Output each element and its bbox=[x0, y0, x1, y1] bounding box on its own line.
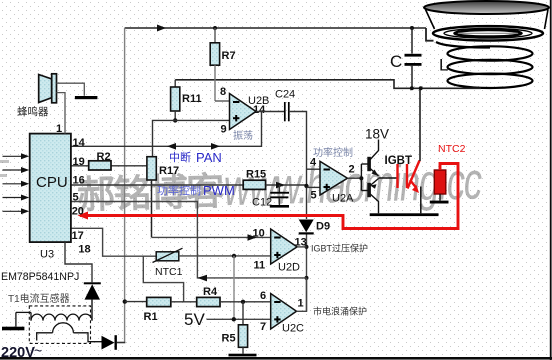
wire: main vertical below D9 bbox=[306, 235, 308, 312]
wire: R1 to R4 bbox=[171, 301, 197, 303]
resistor R1 bbox=[147, 297, 171, 306]
resistor R17 bbox=[147, 157, 156, 238]
wire: pin16 to R15 bbox=[71, 184, 243, 186]
svg-text:2: 2 bbox=[349, 164, 355, 176]
svg-text:振荡: 振荡 bbox=[233, 129, 253, 142]
node: U2D output junction bbox=[305, 245, 309, 249]
svg-text:NTC2: NTC2 bbox=[438, 143, 466, 155]
wire: buzzer top to ground bbox=[57, 83, 85, 96]
inductor L coil loops bbox=[436, 42, 533, 88]
CPU pin number labels bbox=[56, 123, 91, 256]
capacitor C24 bbox=[285, 102, 289, 121]
wire: CPU pin18 down to diode bbox=[65, 242, 92, 282]
svg-text:T1电流互感器: T1电流互感器 bbox=[8, 292, 70, 305]
transistor driver pair (totem pole) bbox=[361, 140, 378, 214]
resistor R2 on pin19 wire bbox=[71, 161, 147, 170]
wire: U2A pin4 input bbox=[307, 168, 321, 170]
wire: CPU pin17 to NTC1 bbox=[71, 228, 156, 256]
arrow on top rail bbox=[157, 25, 166, 32]
arrow: PNP emitter bbox=[370, 184, 376, 189]
svg-text:蜂鸣器: 蜂鸣器 bbox=[17, 105, 49, 118]
bottom mains line bbox=[0, 357, 552, 360]
wire: top rail from left rail to coil bbox=[125, 28, 434, 41]
svg-text:EM78P5841NPJ: EM78P5841NPJ bbox=[1, 271, 79, 283]
wire: U2B plus input / R17 top bbox=[153, 120, 230, 157]
svg-text:5: 5 bbox=[73, 192, 79, 204]
resistor R5 bbox=[238, 302, 247, 354]
wire: CPU pin5 to node bbox=[71, 202, 307, 282]
op-amp U2D bbox=[271, 229, 297, 264]
ground bar buzzer bbox=[75, 96, 98, 99]
node: R5 junction bbox=[241, 300, 245, 304]
resistor R15 bbox=[243, 180, 265, 189]
node: pin5 line junction bbox=[305, 276, 309, 280]
wire: R4 to U2C pin6 bbox=[220, 301, 271, 303]
right border line bbox=[550, 0, 552, 360]
arrow: NPN emitter bbox=[372, 170, 379, 177]
svg-text:14: 14 bbox=[73, 137, 86, 149]
node: R15/vertical junction bbox=[304, 184, 308, 188]
svg-text:R2: R2 bbox=[97, 151, 111, 163]
capacitor C12 to ground bbox=[270, 185, 289, 208]
node: IGBT collector junction bbox=[419, 86, 423, 90]
svg-text:18V: 18V bbox=[365, 127, 389, 142]
svg-text:L: L bbox=[439, 56, 448, 75]
ground bar 220V left bbox=[2, 327, 24, 331]
wire: left vertical rail (supply) bbox=[117, 28, 125, 343]
wire: U2D output bbox=[297, 246, 306, 248]
ground bar under NTC2 bbox=[430, 201, 449, 204]
svg-text:市电浪涌保护: 市电浪涌保护 bbox=[313, 306, 367, 317]
ground bar under R5 bbox=[229, 354, 257, 357]
pot body (top ellipse with gradient) bbox=[424, 1, 549, 14]
wire: U2A output to driver bbox=[348, 177, 362, 179]
op-amp U2B bbox=[230, 94, 257, 130]
red wire: CPU pin20 path bbox=[80, 164, 458, 229]
wire: pin14 feedback line with arrows bbox=[71, 112, 262, 150]
diode D (pin18 rectifier) bbox=[84, 282, 101, 320]
svg-text:CPU: CPU bbox=[36, 174, 68, 191]
resistor R11 bbox=[171, 80, 180, 121]
svg-text:U3: U3 bbox=[40, 249, 54, 261]
arrow: red into pin20 bbox=[78, 212, 89, 220]
transformer secondary bbox=[37, 323, 102, 342]
svg-text:R15: R15 bbox=[246, 169, 266, 181]
svg-text:10: 10 bbox=[253, 228, 265, 240]
buzzer speaker bbox=[39, 74, 57, 103]
arrow on R15 wire bbox=[276, 182, 285, 189]
svg-text:14: 14 bbox=[253, 104, 266, 116]
wire: U2B output to C24 bbox=[256, 111, 285, 113]
node: 5V junction bbox=[232, 317, 236, 321]
svg-text:U2D: U2D bbox=[278, 262, 300, 274]
ground bar under driver and IGBT bbox=[370, 213, 439, 216]
diode rectifier (220V) bbox=[102, 335, 117, 350]
svg-text:19: 19 bbox=[73, 156, 85, 168]
pot side walls bbox=[426, 10, 549, 30]
NTC2 thermistor (red) bbox=[434, 170, 446, 201]
NTC1 thermistor bbox=[153, 248, 183, 262]
svg-text:5: 5 bbox=[311, 190, 317, 202]
svg-text:PAN: PAN bbox=[196, 150, 222, 165]
wire: U2C output up to node bbox=[297, 278, 307, 311]
node: R11 bottom junction bbox=[173, 118, 177, 122]
svg-text:IGBT过压保护: IGBT过压保护 bbox=[311, 243, 368, 254]
CPU U3 block bbox=[30, 134, 71, 243]
wire: IGBT emitter bbox=[420, 187, 422, 214]
node: driver input junction bbox=[359, 176, 363, 180]
wire: R1 R4 feed bbox=[125, 301, 147, 303]
CPU left input arrows bbox=[3, 156, 24, 211]
wire: NTC1 left branch down to R1/R4 wire bbox=[143, 256, 183, 302]
svg-text:R7: R7 bbox=[222, 50, 236, 62]
svg-text:6: 6 bbox=[260, 290, 266, 302]
svg-text:U2A: U2A bbox=[332, 193, 354, 205]
arrow: red IGBT emitter bbox=[412, 185, 419, 193]
svg-text:8: 8 bbox=[220, 86, 226, 98]
svg-text:1: 1 bbox=[298, 298, 304, 310]
wire: 5V to U2C pin7 bbox=[207, 318, 271, 320]
svg-text:功率控制: 功率控制 bbox=[313, 146, 353, 159]
svg-text:NTC1: NTC1 bbox=[155, 266, 183, 278]
watermark edge fragment left bbox=[0, 160, 9, 177]
resistor R4 bbox=[197, 297, 220, 306]
wire: branch down to 5V line bbox=[233, 256, 235, 319]
svg-text:20: 20 bbox=[72, 206, 84, 218]
wire: C24 to main vertical node bbox=[289, 112, 307, 220]
wire: R17 to U2D pin10 bbox=[152, 234, 271, 241]
svg-text:7: 7 bbox=[260, 321, 266, 333]
svg-text:R17: R17 bbox=[159, 165, 179, 177]
svg-text:中断: 中断 bbox=[169, 150, 191, 164]
node: C bottom junction bbox=[410, 86, 414, 90]
transformer T1 dashed box bbox=[29, 306, 90, 344]
svg-text:1: 1 bbox=[56, 123, 62, 135]
node: NTC1/R5 branch junction bbox=[232, 254, 236, 258]
svg-text:C: C bbox=[390, 52, 402, 71]
svg-text:C24: C24 bbox=[275, 89, 295, 101]
svg-text:~: ~ bbox=[34, 343, 42, 359]
op-amp U2C bbox=[271, 294, 297, 330]
svg-text:17: 17 bbox=[72, 230, 84, 242]
wire: R15 to U2A node bbox=[266, 184, 307, 186]
svg-text:5V: 5V bbox=[184, 310, 205, 329]
pancake coil under pot bbox=[433, 26, 543, 40]
wire: IGBT collector bbox=[419, 88, 421, 161]
svg-text:11: 11 bbox=[254, 260, 266, 272]
svg-text:R5: R5 bbox=[222, 333, 236, 345]
svg-text:R4: R4 bbox=[203, 286, 218, 298]
wire: primary to diode above bbox=[91, 300, 93, 321]
node: junction top rail / C bbox=[410, 26, 414, 30]
wire: buzzer bottom to CPU pin1 bbox=[57, 93, 66, 134]
svg-text:C12: C12 bbox=[252, 197, 272, 209]
node: junction top rail / R7 bbox=[213, 26, 217, 30]
wire: U2A pin5 input bbox=[307, 186, 321, 188]
svg-text:16: 16 bbox=[73, 175, 85, 187]
svg-text:9: 9 bbox=[221, 124, 227, 136]
wire: NTC1 right to U2D pin11 bbox=[179, 255, 271, 257]
svg-text:18: 18 bbox=[78, 244, 90, 256]
svg-text:D9: D9 bbox=[316, 221, 330, 233]
IGBT red annotation (gate bars and emitter stroke) bbox=[398, 161, 420, 189]
wire: tank bottom rail bbox=[175, 80, 481, 89]
wire: driver output to IGBT gate bbox=[379, 177, 398, 179]
capacitor C plates bbox=[405, 28, 422, 88]
svg-text:U2C: U2C bbox=[282, 323, 304, 335]
transformer primary coil bbox=[16, 312, 92, 326]
watermark row (large gray blog watermark) bbox=[76, 151, 483, 220]
wire: rectifier output to rail bbox=[117, 342, 125, 344]
svg-text:R1: R1 bbox=[144, 311, 158, 323]
resistor R7 bbox=[210, 28, 229, 101]
diode D9 bbox=[299, 220, 314, 235]
node: rail / R1 junction bbox=[123, 299, 127, 303]
op-amp U2A bbox=[320, 161, 348, 195]
svg-text:R11: R11 bbox=[182, 93, 202, 105]
